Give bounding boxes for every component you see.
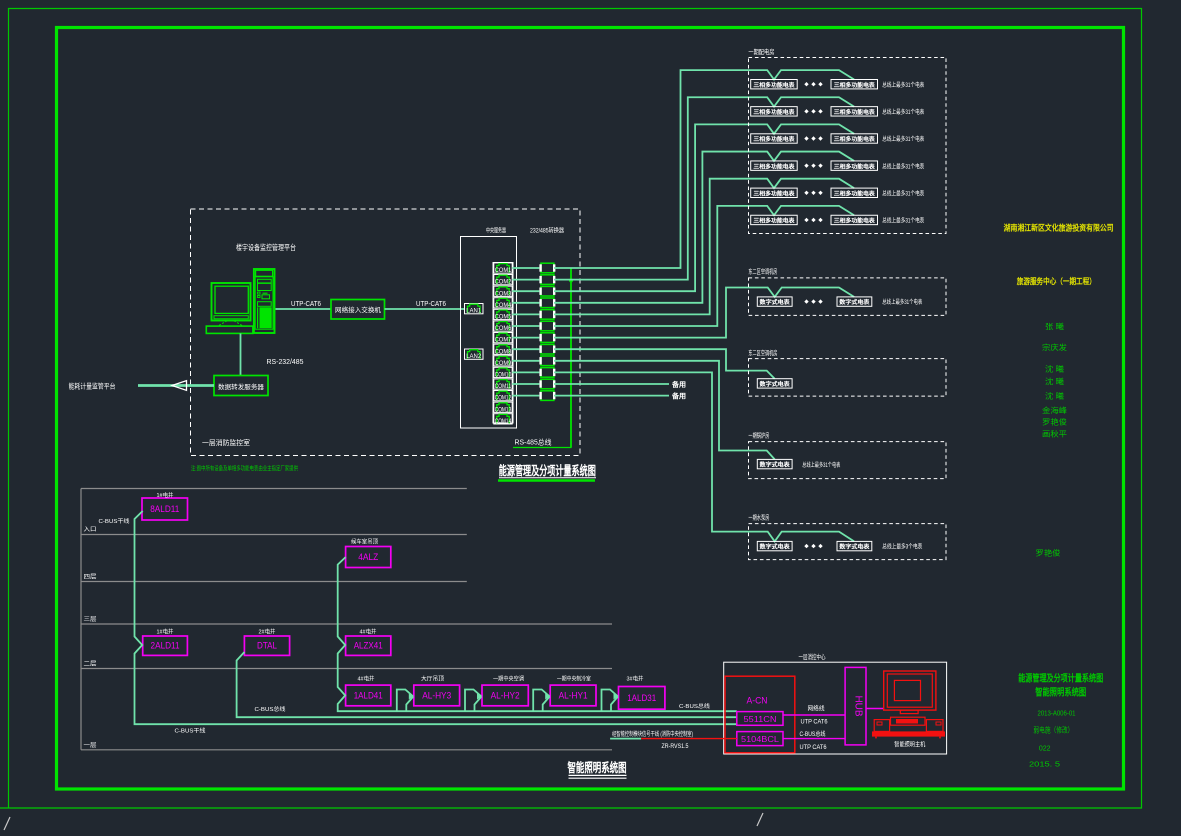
wire COM8 to converter 8	[512, 348, 539, 350]
svg-text:一期中央制冷室: 一期中央制冷室	[557, 674, 591, 682]
svg-text:一期中央空调: 一期中央空调	[493, 674, 524, 682]
svg-text:楼宇设备监控管理平台: 楼宇设备监控管理平台	[236, 242, 296, 252]
wire COM1 to converter 1	[512, 267, 539, 269]
spare wire 1	[554, 383, 669, 385]
workstation monitor	[212, 283, 251, 321]
COM port COM10	[494, 367, 512, 377]
tick mark 1	[4, 817, 10, 830]
svg-text:张 曦: 张 曦	[1045, 321, 1065, 331]
RS-485 bus vertical line	[570, 268, 572, 448]
dots row2	[804, 109, 808, 113]
svg-text:能耗计量监管平台: 能耗计量监管平台	[69, 382, 116, 391]
dots row1	[804, 82, 808, 86]
COM port COM9	[494, 356, 512, 366]
svg-text:总线上最多31个电表: 总线上最多31个电表	[882, 135, 924, 143]
C-BUS riser from 4ALZ through ALZX41 1ALD41 to trunk1	[338, 557, 737, 711]
svg-text:AL-HY2: AL-HY2	[491, 690, 520, 700]
svg-text:智能照明系统图: 智能照明系统图	[1035, 687, 1086, 699]
server tower	[254, 269, 275, 333]
svg-text:一层消防监控室: 一层消防监控室	[202, 438, 250, 447]
svg-text:RS-232/485: RS-232/485	[267, 359, 304, 366]
RS-485 label underline	[513, 447, 572, 449]
svg-text:4ALZ: 4ALZ	[358, 552, 378, 562]
wire converter 1 to panel row 1	[554, 70, 854, 268]
panel 1ALD31	[619, 687, 665, 710]
riser diagram left rail	[80, 489, 82, 750]
svg-text:AL-HY1: AL-HY1	[559, 690, 588, 700]
svg-text:232/485转换器: 232/485转换器	[530, 227, 564, 235]
svg-text:C-BUS干线: C-BUS干线	[99, 517, 130, 525]
panel 1ALD41	[346, 685, 391, 706]
svg-text:中央服务器: 中央服务器	[486, 227, 506, 235]
control room 一层消控中心	[724, 662, 947, 754]
dots row3	[804, 136, 808, 140]
chain connector to AL-HY1	[533, 690, 550, 712]
RS232/485 converter 2	[541, 275, 554, 285]
svg-text:2013-A006-01: 2013-A006-01	[1038, 711, 1076, 718]
svg-text:COM8: COM8	[495, 348, 512, 355]
svg-text:1#电井: 1#电井	[157, 491, 174, 499]
meter 三相多功能电表 row4 A	[751, 161, 798, 170]
svg-text:COM11: COM11	[495, 383, 512, 390]
panel 2 空调机房 dashed box	[749, 278, 947, 316]
wire converter 10 to pump room meters	[554, 372, 854, 541]
svg-text:能源管理及分项计量系统图: 能源管理及分项计量系统图	[1018, 673, 1103, 685]
floor line ground	[81, 749, 612, 751]
A-CN red enclosure	[725, 676, 795, 753]
RS232/485 converter 5	[541, 310, 554, 320]
svg-text:4#电井: 4#电井	[360, 628, 377, 636]
svg-text:数字式电表: 数字式电表	[760, 298, 790, 306]
svg-text:ZR-RVS1.5: ZR-RVS1.5	[662, 743, 689, 750]
svg-text:UTP CAT6: UTP CAT6	[801, 719, 829, 726]
svg-text:一期水泵房: 一期水泵房	[748, 513, 769, 522]
svg-text:宗庆发: 宗庆发	[1042, 342, 1068, 352]
svg-text:1#电井: 1#电井	[157, 628, 174, 636]
dots row5	[804, 191, 808, 195]
svg-text:罗艳俊: 罗艳俊	[1036, 548, 1062, 558]
panel 4 dashed box	[749, 442, 947, 479]
RS232/485 converter 7	[541, 333, 554, 343]
svg-text:四层: 四层	[84, 574, 97, 581]
wire tower to switch	[276, 308, 332, 310]
svg-text:总线上最多31个电表: 总线上最多31个电表	[882, 108, 924, 116]
C-BUS riser from DTAL down to trunk2	[237, 652, 737, 717]
meter 三相多功能电表 row3 A	[751, 134, 798, 143]
panel AL-HY3	[414, 685, 460, 706]
wire converter 5 to panel row 5	[554, 179, 854, 315]
svg-text:沈 曦: 沈 曦	[1045, 391, 1065, 401]
wire server to energy platform	[138, 384, 214, 387]
svg-text:022: 022	[1039, 746, 1051, 753]
meter 数字式电表 p3	[757, 379, 792, 388]
COM port COM3	[494, 286, 512, 296]
workstation keyboard	[206, 326, 253, 333]
svg-text:注:图中所有设备及单相多功能电表由业主指定厂家提供: 注:图中所有设备及单相多功能电表由业主指定厂家提供	[191, 465, 298, 473]
svg-text:COM5: COM5	[495, 314, 512, 321]
wire COM2 to converter 2	[512, 279, 539, 281]
svg-text:HUB: HUB	[853, 695, 864, 716]
fire link wire mint part	[610, 738, 641, 740]
svg-text:COM3: COM3	[495, 290, 512, 297]
floor line 4F	[81, 534, 467, 536]
svg-text:网络线: 网络线	[808, 705, 825, 713]
svg-text:UTP CAT6: UTP CAT6	[800, 744, 828, 751]
svg-text:1ALD31: 1ALD31	[627, 693, 656, 703]
svg-text:候车室吊顶: 候车室吊顶	[351, 538, 378, 546]
svg-text:一层: 一层	[84, 742, 97, 749]
wire HUB to host	[866, 708, 884, 710]
svg-text:LAN1: LAN1	[466, 308, 481, 315]
svg-text:总线上最多31个电表: 总线上最多31个电表	[882, 81, 924, 89]
svg-text:COM2: COM2	[495, 279, 512, 286]
host base (solid)	[872, 731, 945, 736]
svg-text:三相多功能电表: 三相多功能电表	[753, 108, 794, 116]
host right tower	[926, 720, 943, 732]
LAN port LAN2	[465, 349, 484, 359]
svg-text:总线上最多31个电表: 总线上最多31个电表	[802, 461, 840, 469]
svg-text:三相多功能电表: 三相多功能电表	[834, 135, 875, 143]
svg-text:UTP-CAT6: UTP-CAT6	[291, 301, 321, 308]
wire converter 2 to panel row 2	[554, 97, 854, 279]
wire converter 3 to panel row 3	[554, 124, 854, 291]
meter 数字式电表 p2B	[837, 297, 872, 306]
svg-text:总线上最多31个电表: 总线上最多31个电表	[882, 162, 924, 170]
svg-text:COM6: COM6	[495, 325, 512, 332]
wire converter 6 to panel row 6	[554, 206, 854, 326]
svg-text:2#电井: 2#电井	[259, 628, 276, 636]
svg-text:4#电井: 4#电井	[358, 674, 375, 682]
svg-text:三相多功能电表: 三相多功能电表	[753, 81, 794, 89]
svg-text:三相多功能电表: 三相多功能电表	[834, 108, 875, 116]
RS232/485 converter 3	[541, 286, 554, 296]
RS232/485 converter 10	[541, 368, 554, 378]
svg-text:三相多功能电表: 三相多功能电表	[753, 135, 794, 143]
floor line 1F top	[81, 668, 612, 670]
chain connector to AL-HY3	[397, 690, 414, 712]
host computer monitor (red)	[884, 671, 936, 710]
RS232/485 converter 11	[541, 379, 554, 389]
svg-text:网络接入交换机: 网络接入交换机	[335, 305, 382, 314]
svg-text:东二区空调机房: 东二区空调机房	[748, 348, 777, 357]
wire 5511CN to HUB	[783, 714, 845, 716]
panel 2ALD11	[143, 636, 188, 655]
tower lower panel (solid)	[260, 307, 272, 328]
monitor speaker bar	[214, 316, 248, 319]
svg-text:弱电施（修改）: 弱电施（修改）	[1033, 725, 1073, 735]
meter 三相多功能电表 row1 A	[751, 80, 798, 89]
wire COM10 to converter 10	[512, 371, 539, 373]
module 5104BCL	[737, 732, 783, 746]
svg-text:三相多功能电表: 三相多功能电表	[834, 162, 875, 170]
svg-text:COM1: COM1	[495, 267, 512, 274]
dots p2	[804, 299, 808, 303]
svg-text:2015. 5: 2015. 5	[1029, 762, 1060, 769]
svg-text:5511CN: 5511CN	[744, 715, 777, 724]
svg-text:COM4: COM4	[495, 302, 512, 309]
wire COM3 to converter 3	[512, 290, 539, 292]
svg-text:总线上最多31个电表: 总线上最多31个电表	[882, 189, 924, 197]
COM port COM1	[494, 263, 512, 273]
meter 三相多功能电表 row3 B	[831, 134, 878, 143]
RS232/485 converter 8	[541, 344, 554, 354]
svg-text:三相多功能电表: 三相多功能电表	[753, 189, 794, 197]
RS232/485 converter 12	[541, 391, 554, 401]
meter 三相多功能电表 row6 A	[751, 215, 798, 224]
svg-text:C-BUS干线: C-BUS干线	[175, 727, 206, 735]
meter 数字式电表 p2A	[757, 297, 792, 306]
svg-text:RS-485总线: RS-485总线	[515, 438, 552, 447]
svg-text:智能照明主机: 智能照明主机	[894, 740, 926, 748]
COM port column frame	[493, 263, 513, 424]
meter 数字式电表 p5A	[757, 541, 792, 550]
svg-text:能源管理及分项计量系统图: 能源管理及分项计量系统图	[499, 463, 596, 478]
wire converter 8 to AC room meter 2	[554, 349, 775, 379]
svg-text:总线上最多31个电表: 总线上最多31个电表	[882, 217, 924, 225]
svg-text:沈 曦: 沈 曦	[1045, 364, 1065, 374]
floor line 2F	[81, 623, 612, 625]
svg-text:入口: 入口	[84, 526, 97, 533]
svg-text:沈 曦: 沈 曦	[1045, 376, 1065, 386]
wire switch to LAN1	[385, 308, 465, 310]
meter 三相多功能电表 row4 B	[831, 161, 878, 170]
panel 3 dashed box	[749, 359, 947, 397]
svg-text:C-BUS总线: C-BUS总线	[800, 730, 826, 738]
COM port COM5	[494, 309, 512, 319]
svg-text:COM12: COM12	[495, 395, 512, 402]
chain connector to 1ALD31	[602, 690, 619, 712]
monitor stand	[218, 321, 227, 326]
svg-text:2ALD11: 2ALD11	[151, 641, 180, 651]
wire COM11 to converter 11	[512, 383, 539, 385]
LAN port LAN1	[465, 304, 484, 314]
host keyboard	[891, 717, 926, 725]
svg-text:A-CN: A-CN	[747, 696, 768, 706]
panel 4ALZ	[346, 547, 391, 568]
svg-text:DTAL: DTAL	[257, 641, 277, 651]
svg-text:数字式电表: 数字式电表	[760, 461, 790, 469]
svg-text:COM10: COM10	[495, 372, 512, 379]
svg-text:三相多功能电表: 三相多功能电表	[753, 162, 794, 170]
svg-text:数字式电表: 数字式电表	[839, 543, 869, 551]
COM port COM11	[494, 379, 512, 389]
svg-text:ALZX41: ALZX41	[354, 641, 383, 651]
svg-text:东二区空调机房: 东二区空调机房	[748, 267, 777, 276]
meter 数字式电表 p4	[757, 459, 792, 468]
panel 5 dashed box	[749, 524, 947, 560]
svg-text:8ALD11: 8ALD11	[150, 504, 179, 514]
svg-text:旅游服务中心（一期工程）: 旅游服务中心（一期工程）	[1017, 276, 1096, 286]
panel AL-HY2	[482, 685, 528, 706]
svg-text:大厅吊顶: 大厅吊顶	[421, 674, 444, 682]
wire COM6 to converter 6	[512, 325, 539, 327]
svg-text:C-BUS总线: C-BUS总线	[679, 702, 710, 710]
svg-text:1ALD41: 1ALD41	[354, 690, 383, 700]
wire converter 7 to AC room meter	[554, 288, 854, 338]
host left tower	[874, 720, 889, 732]
floor line 3F	[81, 581, 467, 583]
svg-text:经智能控制模块信号干线 (消防中央控制室): 经智能控制模块信号干线 (消防中央控制室)	[612, 730, 693, 738]
COM port COM14	[494, 414, 512, 424]
meter 三相多功能电表 row1 B	[831, 80, 878, 89]
svg-text:一期配电房: 一期配电房	[748, 47, 774, 56]
svg-text:智能照明系统图: 智能照明系统图	[568, 760, 627, 775]
wire workstation down to data server	[240, 334, 242, 376]
svg-text:COM14: COM14	[495, 418, 512, 425]
dots p5	[804, 544, 808, 548]
svg-text:总线上最多31个电表: 总线上最多31个电表	[882, 298, 922, 306]
svg-text:三相多功能电表: 三相多功能电表	[834, 189, 875, 197]
RS232/485 converter 1	[541, 263, 554, 273]
central server cabinet	[461, 237, 517, 429]
svg-text:数字式电表: 数字式电表	[760, 380, 790, 388]
svg-text:3#电井: 3#电井	[627, 674, 644, 682]
svg-text:5104BCL: 5104BCL	[741, 735, 780, 744]
svg-text:三相多功能电表: 三相多功能电表	[834, 217, 875, 225]
panel AL-HY1	[550, 685, 596, 706]
COM port COM13	[494, 402, 512, 412]
COM port COM4	[494, 298, 512, 308]
monitoring room dashed boundary	[191, 209, 581, 456]
HUB box	[845, 667, 866, 745]
svg-text:C-BUS总线: C-BUS总线	[255, 705, 286, 713]
panel 1 一期配电房 dashed box	[749, 58, 947, 234]
RS232/485 converter 9	[541, 356, 554, 366]
svg-text:三相多功能电表: 三相多功能电表	[834, 81, 875, 89]
svg-text:二层: 二层	[84, 661, 97, 668]
svg-text:备用: 备用	[672, 391, 686, 400]
meter 三相多功能电表 row2 A	[751, 107, 798, 116]
host monitor stand	[900, 710, 918, 714]
svg-text:UTP-CAT6: UTP-CAT6	[416, 301, 446, 308]
RS232/485 converter 6	[541, 321, 554, 331]
svg-text:湖南湘江新区文化旅游投资有限公司: 湖南湘江新区文化旅游投资有限公司	[1004, 223, 1114, 233]
tower drive bays	[258, 279, 272, 283]
wire converter 9 to boiler room meter	[554, 361, 775, 460]
svg-text:COM13: COM13	[495, 406, 512, 413]
svg-text:数字式电表: 数字式电表	[839, 298, 869, 306]
dots row6	[804, 218, 808, 222]
wire converter 4 to panel row 4	[554, 152, 854, 303]
module 5511CN	[737, 712, 783, 726]
C-BUS riser from 8ALD11 down to trunk3	[135, 511, 737, 724]
svg-text:AL-HY3: AL-HY3	[422, 690, 451, 700]
svg-text:备用: 备用	[672, 380, 686, 389]
svg-text:罗艳俊: 罗艳俊	[1042, 416, 1068, 426]
COM port COM8	[494, 344, 512, 354]
chain connector to AL-HY2	[465, 690, 482, 712]
wire COM9 to converter 9	[512, 360, 539, 362]
RS232/485 converter 4	[541, 298, 554, 308]
meter 三相多功能电表 row5 B	[831, 188, 878, 197]
COM port COM2	[494, 275, 512, 285]
svg-text:数据转发服务器: 数据转发服务器	[218, 382, 265, 391]
wire 5104BCL to HUB	[783, 738, 845, 740]
tick mark 2	[757, 813, 763, 826]
network switch 网络接入交换机	[331, 300, 385, 320]
wire COM12 to converter 12	[512, 395, 539, 397]
fire link wire red part	[641, 738, 737, 740]
svg-text:COM7: COM7	[495, 337, 512, 344]
dots row4	[804, 163, 808, 167]
host feet	[875, 737, 877, 739]
wire COM4 to converter 4	[512, 302, 539, 304]
floor line roof	[81, 488, 467, 490]
wire COM5 to converter 5	[512, 313, 539, 315]
junction dot	[569, 278, 573, 282]
meter 三相多功能电表 row5 A	[751, 188, 798, 197]
svg-text:数字式电表: 数字式电表	[760, 543, 790, 551]
svg-text:画秋平: 画秋平	[1042, 429, 1068, 439]
data forward server 数据转发服务器	[214, 376, 268, 396]
svg-text:三层: 三层	[84, 616, 97, 623]
svg-text:一层消控中心: 一层消控中心	[799, 652, 826, 661]
COM port COM12	[494, 391, 512, 401]
spare wire 2	[554, 395, 669, 397]
COM port COM6	[494, 321, 512, 331]
svg-text:一期锅炉房: 一期锅炉房	[748, 431, 769, 440]
wire COM7 to converter 7	[512, 337, 539, 339]
panel DTAL	[244, 636, 289, 655]
arrow head	[172, 381, 187, 391]
svg-text:金海峰: 金海峰	[1042, 405, 1068, 415]
panel 8ALD11	[142, 498, 188, 520]
svg-text:三相多功能电表: 三相多功能电表	[753, 217, 794, 225]
meter 数字式电表 p5B	[837, 541, 872, 550]
meter 三相多功能电表 row2 B	[831, 107, 878, 116]
COM port COM7	[494, 333, 512, 343]
meter 三相多功能电表 row6 B	[831, 215, 878, 224]
panel ALZX41	[346, 636, 391, 655]
svg-text:LAN2: LAN2	[466, 353, 481, 360]
svg-text:COM9: COM9	[495, 360, 512, 367]
svg-text:总线上最多3个电表: 总线上最多3个电表	[882, 543, 922, 551]
